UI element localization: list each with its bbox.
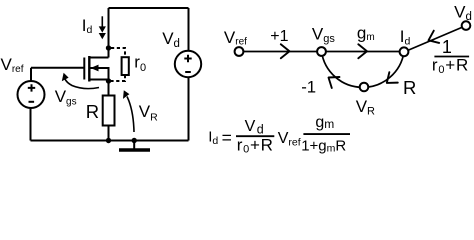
junction R-bottom node xyxy=(106,138,111,143)
node V_ref xyxy=(235,47,244,56)
wire source bottom xyxy=(30,108,32,141)
eq fraction Vd/(r0+R) xyxy=(236,118,274,155)
gate bar xyxy=(83,58,85,80)
branch Vgs->Id xyxy=(322,51,405,53)
arc Id->VR->Vgs xyxy=(322,52,405,88)
arrow V_gs xyxy=(62,73,99,89)
wire bottom rail xyxy=(31,140,189,142)
arrow Id->VR xyxy=(383,72,398,88)
svg-text:-1: -1 xyxy=(301,77,316,96)
arrow VR->Vgs xyxy=(325,72,340,88)
branch Vref->Vgs xyxy=(239,51,322,53)
svg-text:+1: +1 xyxy=(270,28,288,45)
arrow V_R xyxy=(123,90,134,132)
svg-text:r0+R: r0+R xyxy=(432,55,469,76)
svg-text:1: 1 xyxy=(442,37,452,57)
svg-text:=: = xyxy=(222,128,232,148)
transistor M1 (NMOS) xyxy=(31,56,109,82)
svg-text:R: R xyxy=(403,77,416,98)
svg-text:R: R xyxy=(86,101,99,122)
gate lead xyxy=(31,67,84,69)
bulk arrow line xyxy=(91,68,109,80)
svg-text:gm: gm xyxy=(315,114,334,131)
node V_d xyxy=(462,21,471,30)
branch Vd->Id xyxy=(404,26,466,52)
node I_d xyxy=(400,47,409,56)
bulk arrow head xyxy=(91,65,99,72)
voltage source V_d xyxy=(175,51,201,77)
junction drain node xyxy=(106,45,111,50)
eq fraction gm/(1+gmR) xyxy=(301,114,350,155)
svg-text:1+gmR: 1+gmR xyxy=(301,138,346,155)
wire right upper (to Vd top) xyxy=(188,8,190,51)
voltage source V_ref xyxy=(18,68,45,141)
source stub xyxy=(89,79,108,81)
ground xyxy=(119,138,150,150)
svg-text:r0+R: r0+R xyxy=(237,135,274,155)
resistor r_0 (dashed connection) xyxy=(111,48,129,81)
current arrow I_d xyxy=(99,16,106,39)
node V_gs xyxy=(317,47,326,56)
channel bar xyxy=(88,56,90,82)
wire source top riser xyxy=(30,68,32,81)
node V_R xyxy=(360,83,369,92)
resistor R xyxy=(103,81,115,141)
drain stub xyxy=(89,57,108,59)
junction source node xyxy=(106,78,111,83)
branch gain 1/(r0+R) xyxy=(432,37,469,76)
wire top rail xyxy=(109,7,189,9)
wire right lower (Vd bottom to ground rail) xyxy=(188,78,190,141)
wire drain riser xyxy=(108,8,110,58)
